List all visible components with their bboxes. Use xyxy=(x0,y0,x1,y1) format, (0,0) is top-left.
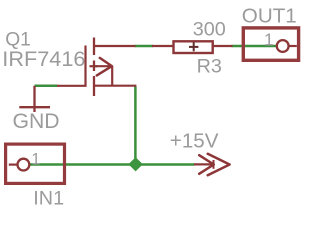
svg-text:1: 1 xyxy=(264,29,274,49)
svg-text:+15V: +15V xyxy=(170,130,219,153)
svg-text:OUT1: OUT1 xyxy=(242,5,297,28)
svg-text:IN1: IN1 xyxy=(33,188,64,209)
svg-text:IRF7416: IRF7416 xyxy=(2,46,85,71)
svg-text:1: 1 xyxy=(31,150,40,168)
svg-text:300: 300 xyxy=(193,19,226,41)
svg-text:R3: R3 xyxy=(197,55,222,77)
svg-text:GND: GND xyxy=(13,110,60,133)
